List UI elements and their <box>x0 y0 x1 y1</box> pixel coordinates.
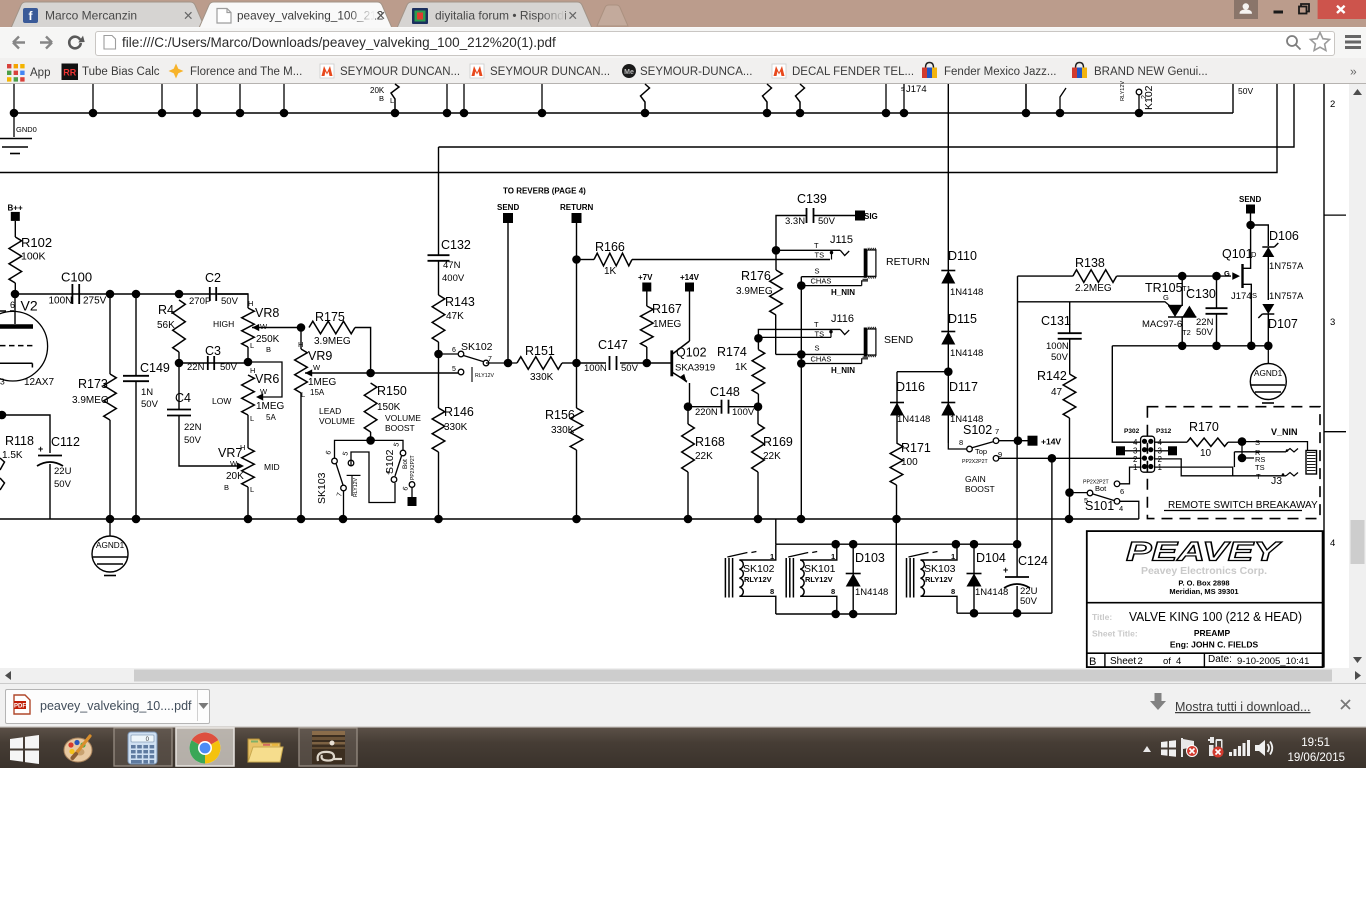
svg-text:D117: D117 <box>949 380 978 394</box>
relay contact SK103 <box>316 440 371 519</box>
svg-text:D116: D116 <box>896 380 925 394</box>
svg-text:H: H <box>248 299 253 308</box>
svg-text:SEND: SEND <box>884 334 914 346</box>
wire analog ground bus <box>0 518 1139 520</box>
svg-text:2: 2 <box>1330 99 1335 110</box>
zener D106 1N757A <box>1251 225 1304 300</box>
svg-text:TS: TS <box>1255 463 1265 472</box>
resistor R138 2.2MEG <box>1018 256 1232 294</box>
svg-text:C149: C149 <box>140 361 170 375</box>
svg-text:R151: R151 <box>525 344 555 358</box>
svg-text:20K: 20K <box>226 471 244 482</box>
svg-text:250K: 250K <box>256 334 280 345</box>
svg-text:CHAS: CHAS <box>811 277 832 286</box>
svg-text:47N: 47N <box>443 260 461 271</box>
svg-text:V2: V2 <box>21 298 38 314</box>
svg-text:D: D <box>1251 250 1257 259</box>
svg-text:S102: S102 <box>384 449 396 474</box>
switch S102 gain boost (top) <box>948 423 1002 465</box>
svg-text:400V: 400V <box>442 273 465 284</box>
svg-text:TS: TS <box>815 251 825 260</box>
capacitor C3 22N 50V <box>175 344 248 373</box>
svg-text:S: S <box>1252 291 1257 300</box>
svg-text:5: 5 <box>452 366 456 373</box>
svg-text:PP2X2P2T: PP2X2P2T <box>410 455 416 480</box>
svg-text:47: 47 <box>1051 387 1063 398</box>
svg-text:R142: R142 <box>1037 369 1067 383</box>
svg-text:4: 4 <box>1330 538 1335 549</box>
capacitor C100 100N 275V <box>49 270 107 307</box>
pdf file icon <box>14 695 30 714</box>
potentiometer VR (cut) 20K bottom at top edge <box>370 84 399 113</box>
svg-text:HIGH: HIGH <box>213 319 234 329</box>
svg-text:W: W <box>230 459 238 468</box>
svg-text:VOLUME: VOLUME <box>319 416 355 426</box>
svg-text:D110: D110 <box>948 249 977 263</box>
svg-text:B: B <box>224 483 229 492</box>
svg-text:220N: 220N <box>695 407 718 418</box>
svg-text:100: 100 <box>901 457 918 468</box>
junction R166 tap <box>572 255 581 264</box>
junction R175/VR9 wiper line <box>366 369 375 378</box>
jack J116 SEND <box>758 313 913 375</box>
junction J116/R174 <box>754 334 763 343</box>
jack J115 RETURN <box>776 234 930 297</box>
svg-text:330K: 330K <box>551 425 575 436</box>
svg-text:Date:: Date: <box>1208 654 1232 665</box>
svg-text:22N: 22N <box>187 362 205 373</box>
svg-text:4: 4 <box>1176 656 1181 667</box>
svg-text:1: 1 <box>1133 463 1138 472</box>
svg-text:50V: 50V <box>818 216 836 227</box>
terminal +7V <box>638 273 653 306</box>
label VOLUME BOOST <box>385 413 421 433</box>
svg-text:6: 6 <box>402 486 410 492</box>
resistor R169 22K <box>752 407 793 519</box>
svg-text:1N757A: 1N757A <box>1269 261 1304 272</box>
svg-text:P312: P312 <box>1156 428 1172 435</box>
diode D115 1N4148 <box>941 312 983 359</box>
resistor R143 47K <box>432 295 475 354</box>
svg-text:C3: C3 <box>205 344 221 358</box>
vertical scrollbar <box>1349 84 1366 668</box>
svg-text:1MEG: 1MEG <box>653 319 682 330</box>
resistor R168 22K <box>682 407 725 519</box>
resistor (cut) at top edge x=645 <box>641 84 650 113</box>
svg-text:RLY12V: RLY12V <box>925 575 953 584</box>
svg-text:PP2X2P2T: PP2X2P2T <box>1083 480 1109 486</box>
svg-text:S: S <box>815 344 820 353</box>
diode D104 1N4148 <box>967 544 1009 613</box>
svg-text:D106: D106 <box>1269 229 1299 243</box>
svg-text:C148: C148 <box>710 385 740 399</box>
Peavey logo <box>1126 537 1283 567</box>
svg-text:50V: 50V <box>1020 596 1038 607</box>
svg-text:V_NIN: V_NIN <box>1271 427 1298 437</box>
svg-text:J3: J3 <box>1271 475 1282 487</box>
label LEAD VOLUME <box>319 406 355 426</box>
svg-text:R102: R102 <box>21 235 52 250</box>
svg-text:R175: R175 <box>315 310 345 324</box>
svg-text:7: 7 <box>488 356 492 363</box>
right link <box>1150 693 1166 710</box>
svg-text:12AX7: 12AX7 <box>24 377 54 388</box>
junction C139/R176/J115 <box>772 246 781 255</box>
terminal B++ <box>8 204 23 238</box>
svg-text:7: 7 <box>336 492 344 498</box>
svg-text:C130: C130 <box>1186 287 1216 301</box>
svg-text:+14V: +14V <box>680 273 700 282</box>
svg-text:2: 2 <box>1141 95 1148 99</box>
svg-text:SIG: SIG <box>864 212 878 221</box>
tray <box>1143 746 1151 752</box>
svg-text:+: + <box>38 444 43 454</box>
wire header row4 right to R170 <box>1155 441 1187 443</box>
svg-text:L: L <box>250 414 254 423</box>
svg-text:22N: 22N <box>184 422 202 433</box>
svg-text:B: B <box>379 94 384 103</box>
hamburger <box>1345 37 1361 48</box>
svg-text:19:51: 19:51 <box>1301 737 1330 749</box>
svg-text:PP2X2P2T: PP2X2P2T <box>962 459 988 465</box>
label J174 top <box>901 84 927 95</box>
svg-text:J116: J116 <box>831 313 854 325</box>
svg-text:Peavey Electronics Corp.: Peavey Electronics Corp. <box>1141 565 1267 577</box>
svg-text:6: 6 <box>10 300 15 310</box>
svg-text:R174: R174 <box>717 345 747 359</box>
svg-text:C112: C112 <box>51 435 80 449</box>
horizontal scrollbar <box>0 668 1366 683</box>
svg-text:50V: 50V <box>1238 86 1253 96</box>
wire S102 pin7 to +14V <box>999 436 1022 445</box>
svg-text:VR8: VR8 <box>255 306 279 320</box>
svg-text:100K: 100K <box>21 251 46 263</box>
svg-text:T: T <box>1256 472 1261 481</box>
svg-text:1N: 1N <box>141 387 153 398</box>
star <box>1311 33 1330 51</box>
magnifier <box>1287 36 1301 50</box>
svg-text:22U: 22U <box>54 466 72 477</box>
resistor R175 3.9MEG <box>309 310 371 373</box>
svg-text:BOOST: BOOST <box>385 423 415 433</box>
svg-text:SEND: SEND <box>1239 195 1261 204</box>
svg-text:1K: 1K <box>604 266 617 277</box>
svg-text:C2: C2 <box>205 271 221 285</box>
ground symbol AGND1 left <box>92 519 128 576</box>
svg-text:C147: C147 <box>598 338 628 352</box>
svg-text:1.5K: 1.5K <box>2 450 23 461</box>
svg-text:100N: 100N <box>1046 341 1069 352</box>
svg-text:47K: 47K <box>446 311 464 322</box>
resistor R156 330K <box>545 408 583 519</box>
svg-text:R143: R143 <box>445 295 475 309</box>
svg-text:SEND: SEND <box>497 203 519 212</box>
svg-text:D103: D103 <box>855 551 885 565</box>
svg-text:1N4148: 1N4148 <box>950 287 983 298</box>
svg-text:L: L <box>301 390 305 399</box>
svg-text:Q101: Q101 <box>1222 247 1253 261</box>
svg-text:G: G <box>1224 269 1230 278</box>
svg-text:270P: 270P <box>189 296 211 307</box>
potentiometer VR7 20K MID <box>218 415 280 519</box>
capacitor C124 22U 50V electrolytic <box>1003 441 1048 614</box>
resistor R167 1MEG <box>641 302 682 363</box>
zener D107 1N757A <box>1258 291 1304 346</box>
wire S102 pin9 to header row2 <box>999 454 1142 463</box>
url page icon <box>104 36 116 50</box>
wire relay top rail <box>776 540 1022 549</box>
svg-text:GND0: GND0 <box>16 125 37 134</box>
capacitor C147 100N 50V <box>577 338 648 374</box>
junction dots on ground bus <box>106 515 1074 524</box>
paint icon <box>64 736 92 762</box>
wire relay bottom rail right <box>957 458 1052 617</box>
svg-text:3.9MEG: 3.9MEG <box>72 395 109 406</box>
junction D115/D116 <box>897 367 953 376</box>
junction VR8 wiper node <box>297 323 306 332</box>
svg-text:C4: C4 <box>175 391 191 405</box>
resistor R142 47 <box>1037 369 1076 519</box>
svg-text:of: of <box>1163 656 1171 667</box>
svg-text:SK103: SK103 <box>924 563 956 575</box>
ground GND0 <box>0 113 37 154</box>
switch jog at x=1060 <box>1026 84 1066 113</box>
svg-text:275V: 275V <box>83 296 107 307</box>
relay contact SK102 <box>441 341 494 382</box>
svg-text:3.9MEG: 3.9MEG <box>314 336 351 347</box>
svg-text:RETURN: RETURN <box>560 203 594 212</box>
svg-text:1: 1 <box>951 552 955 561</box>
resistor R166 1K <box>580 240 830 277</box>
svg-text:C132: C132 <box>441 238 471 252</box>
svg-text:22K: 22K <box>695 451 713 462</box>
junction dots on top bus <box>10 109 1144 118</box>
wire jack sleeve bus <box>797 277 806 519</box>
capacitor C2 270P 50V <box>189 271 239 307</box>
ground symbol AGND1 right <box>1250 346 1286 403</box>
svg-text:B++: B++ <box>8 204 23 213</box>
svg-text:C100: C100 <box>61 270 92 285</box>
svg-text:5: 5 <box>342 451 350 457</box>
resistor R146 330K <box>432 354 474 519</box>
svg-text:3: 3 <box>0 377 5 387</box>
svg-text:1N4148: 1N4148 <box>975 587 1008 598</box>
svg-text:7: 7 <box>995 427 999 436</box>
svg-text:s: s <box>901 86 905 93</box>
svg-text:Sheet: Sheet <box>1110 656 1136 667</box>
svg-text:Sheet Title:: Sheet Title: <box>1092 629 1138 639</box>
svg-text:D115: D115 <box>948 312 977 326</box>
svg-text:H: H <box>298 340 303 349</box>
capacitor C130 22N 50V <box>1186 272 1228 346</box>
svg-text:W: W <box>260 387 268 396</box>
svg-text:D104: D104 <box>976 551 1006 565</box>
svg-text:1K: 1K <box>735 362 748 373</box>
svg-text:R168: R168 <box>695 435 725 449</box>
svg-text:Meridian, MS 39301: Meridian, MS 39301 <box>1169 587 1238 596</box>
reload <box>69 36 87 49</box>
wire top ground bus <box>14 84 1233 113</box>
svg-text:3: 3 <box>1330 317 1335 328</box>
svg-text:R171: R171 <box>901 441 931 455</box>
junction RETURN/R151/C147 <box>572 359 581 368</box>
svg-text:R4: R4 <box>158 303 174 317</box>
svg-text:10: 10 <box>1200 448 1212 459</box>
svg-text:VR7: VR7 <box>218 446 242 460</box>
junction SEND/SK102/R151 <box>504 359 513 368</box>
svg-text:PEAVEY: PEAVEY <box>1126 537 1283 567</box>
wire S101 pin4 to ground bus <box>1120 501 1139 519</box>
svg-text:LEAD: LEAD <box>319 406 341 416</box>
svg-text:RLY12V: RLY12V <box>744 575 772 584</box>
svg-text:3.9MEG: 3.9MEG <box>736 286 773 297</box>
svg-text:S: S <box>1255 438 1260 447</box>
svg-text:R118: R118 <box>5 434 34 448</box>
svg-text:VALVE KING 100 (212 & HEAD): VALVE KING 100 (212 & HEAD) <box>1129 609 1302 624</box>
apps grid <box>7 64 25 82</box>
svg-text:8: 8 <box>959 438 963 447</box>
svg-text:4: 4 <box>1119 504 1123 513</box>
svg-text:150K: 150K <box>377 402 401 413</box>
svg-text:VR9: VR9 <box>308 349 332 363</box>
svg-text:peavey_valveking_10....pdf: peavey_valveking_10....pdf <box>40 699 192 713</box>
terminal RETURN (reverb) <box>560 203 594 408</box>
svg-text:5: 5 <box>393 442 401 448</box>
svg-text:R173: R173 <box>78 377 108 391</box>
svg-text:+7V: +7V <box>638 273 653 282</box>
svg-text:Top: Top <box>975 447 987 456</box>
svg-text:W: W <box>313 363 321 372</box>
pdf page favicon <box>217 9 231 24</box>
svg-text:C139: C139 <box>797 192 827 206</box>
svg-text:C124: C124 <box>1018 554 1048 568</box>
svg-text:22K: 22K <box>763 451 781 462</box>
capacitor C132 47N 400V <box>428 238 471 295</box>
transistor Q101 J174 jfet <box>1222 225 1257 346</box>
relay contact K102 (cut) <box>1120 81 1155 113</box>
svg-text:50V: 50V <box>184 435 202 446</box>
svg-text:J174: J174 <box>1231 291 1252 302</box>
svg-text:Mostra tutti i download...: Mostra tutti i download... <box>1175 700 1310 714</box>
tube V2 12AX7 <box>0 294 54 388</box>
wire relay rail risers left <box>775 519 777 544</box>
wire H1 to top right <box>439 84 1295 147</box>
dashed box REMOTE SWITCH BREAKAWAY <box>1147 407 1320 519</box>
start button <box>10 735 39 764</box>
svg-text:SK103: SK103 <box>316 472 328 504</box>
svg-text:R169: R169 <box>763 435 793 449</box>
relay contact SK103 pin5 and actuator <box>342 451 360 497</box>
svg-text:T2: T2 <box>1182 328 1191 337</box>
resistor R118 1.5K (cut) <box>0 434 34 490</box>
title block box <box>1087 531 1323 667</box>
capacitor C149 1N 50V <box>123 294 170 519</box>
svg-text:R146: R146 <box>444 405 474 419</box>
sheet border <box>1324 84 1346 668</box>
chrome button (active) <box>176 728 234 766</box>
svg-text:S101: S101 <box>1085 499 1114 513</box>
svg-text:RLY12V: RLY12V <box>805 575 833 584</box>
svg-text:9-10-2005_10:41: 9-10-2005_10:41 <box>1237 656 1309 667</box>
svg-text:15A: 15A <box>310 388 325 397</box>
wire main vertical x=948 <box>947 84 949 443</box>
svg-text:PREAMP: PREAMP <box>1194 628 1231 638</box>
media app button <box>299 728 357 766</box>
svg-text:SK101: SK101 <box>804 563 836 575</box>
relay coil SK101 RLY12V <box>786 547 837 611</box>
svg-text:8: 8 <box>831 587 835 596</box>
svg-text:1N4148: 1N4148 <box>897 414 930 425</box>
svg-text:100N: 100N <box>49 296 73 307</box>
svg-text:S102: S102 <box>963 423 992 437</box>
svg-text:D107: D107 <box>1268 317 1298 331</box>
svg-text:CHAS: CHAS <box>811 355 832 364</box>
svg-text:50V: 50V <box>141 399 159 410</box>
svg-text:330K: 330K <box>444 422 468 433</box>
wire H2 long horizontal <box>0 84 1277 173</box>
resistor R102 100K <box>9 235 52 294</box>
wire relay bottom rail left <box>776 519 897 618</box>
calculator button <box>114 728 172 766</box>
terminal SEND (reverb) <box>497 203 519 363</box>
wire R138 feed vertical <box>1017 276 1019 441</box>
terminal header pin3 left <box>1116 446 1141 455</box>
svg-text:+14V: +14V <box>1041 437 1061 447</box>
svg-text:2: 2 <box>1138 656 1143 667</box>
diode D117 1N4148 <box>941 380 983 425</box>
svg-text:1MEG: 1MEG <box>308 377 337 388</box>
resistor R176 3.9MEG <box>736 250 782 354</box>
capacitor C139 3.3N 50V <box>776 192 857 250</box>
svg-text:MID: MID <box>264 462 280 472</box>
svg-text:W: W <box>260 322 268 331</box>
diyitalia favicon <box>412 8 428 24</box>
taskbar <box>0 726 1366 768</box>
terminal header pin3 right <box>1155 446 1177 455</box>
svg-text:56K: 56K <box>157 320 175 331</box>
potentiometer VR6 1MEG LOW <box>212 362 285 423</box>
svg-text:RETURN: RETURN <box>886 256 930 268</box>
svg-text:6: 6 <box>452 347 456 354</box>
svg-text:R170: R170 <box>1189 420 1219 434</box>
resistor remnants at top edge x=767,800 <box>763 84 805 113</box>
svg-text:Title:: Title: <box>1092 612 1112 622</box>
svg-text:T: T <box>814 320 819 329</box>
svg-text:AGND1: AGND1 <box>96 541 125 550</box>
svg-text:VR6: VR6 <box>255 372 279 386</box>
svg-text:GAIN: GAIN <box>965 474 986 484</box>
svg-text:RLY12V: RLY12V <box>1120 81 1126 101</box>
potentiometer VR9 1MEG lead volume <box>295 328 458 520</box>
forward <box>40 37 52 49</box>
svg-text:Bot: Bot <box>402 459 409 469</box>
diode D116 1N4148 <box>890 372 930 443</box>
resistor R151 330K <box>486 344 577 383</box>
terminal +14V (S102) <box>1018 436 1062 447</box>
svg-text:R167: R167 <box>652 302 682 316</box>
junction SEND/Q101 drain <box>1246 221 1255 230</box>
capacitor C131 100N 50V <box>1041 302 1082 374</box>
label GAIN BOOST <box>965 474 995 494</box>
svg-text:PDF: PDF <box>14 704 26 710</box>
svg-text:J174: J174 <box>906 84 927 95</box>
jack J3 remote <box>1155 427 1317 487</box>
svg-text:50V: 50V <box>1051 352 1069 363</box>
transistor Q102 SKA3919 <box>647 292 715 407</box>
junction C147/R167/Q102 base <box>643 359 652 368</box>
potentiometer VR8 250K HIGH <box>213 294 301 362</box>
svg-text:1N757A: 1N757A <box>1269 291 1304 302</box>
